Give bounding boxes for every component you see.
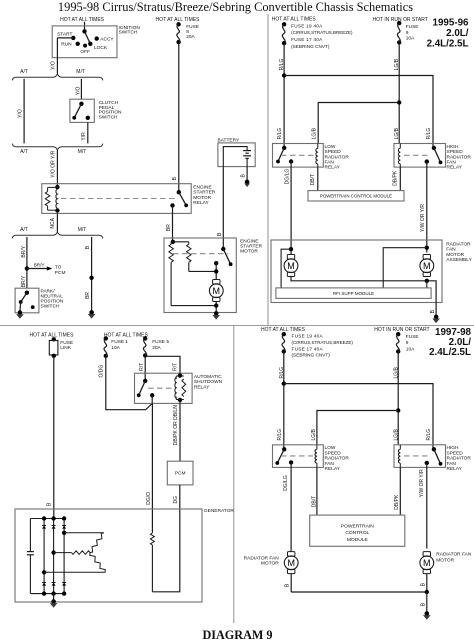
svg-text:FAN: FAN — [447, 160, 457, 166]
generator stator windings — [42, 531, 105, 575]
svg-text:GENERATOR: GENERATOR — [204, 508, 234, 514]
high speed relay dashed link (97-98) — [404, 455, 431, 457]
label RADIATOR FAN MOTOR ASSEMBLY — [446, 242, 472, 264]
svg-text:R/T: R/T — [139, 363, 145, 371]
wire B fuse link to generator — [53, 356, 55, 519]
svg-text:FUSE: FUSE — [406, 334, 419, 340]
node junction M/T ground wire — [89, 276, 93, 280]
divider vertical bottom quadrant — [233, 326, 235, 624]
svg-text:2.0L/: 2.0L/ — [446, 28, 469, 39]
label HIGH SPEED RADIATOR FAN RELAY (97-98) — [447, 445, 472, 472]
svg-text:PCM: PCM — [175, 470, 186, 476]
high speed radiator fan relay box (97-98) — [394, 445, 446, 468]
ground bus (97-98) — [291, 591, 427, 593]
generator diodes bottom row — [42, 583, 46, 586]
arrow TO PCM — [27, 263, 66, 276]
wire DG/LG low speed relay to left fan motor — [290, 162, 292, 255]
svg-text:HOT AT ALL TIMES: HOT AT ALL TIMES — [156, 17, 201, 23]
svg-text:Y/O: Y/O — [75, 86, 81, 95]
svg-text:FUSE 1: FUSE 1 — [111, 339, 128, 345]
svg-text:DG/O: DG/O — [146, 492, 152, 505]
svg-text:R/LG: R/LG — [277, 429, 283, 441]
svg-text:2.4L/2.5L: 2.4L/2.5L — [427, 38, 469, 49]
node junction left motor feed — [289, 247, 293, 251]
svg-text:Y/R: Y/R — [81, 132, 87, 141]
svg-text:DG/LG: DG/LG — [283, 475, 289, 491]
svg-text:RELAY: RELAY — [325, 165, 341, 171]
clutch pedal position switch box — [70, 99, 94, 122]
svg-text:FUSE 19 40A: FUSE 19 40A — [291, 23, 323, 28]
svg-text:DIAGRAM 9: DIAGRAM 9 — [202, 628, 272, 642]
fuse 19 40A (95-96) — [282, 22, 286, 26]
wire DG/LG low speed relay to left fan motor (97-98) — [290, 462, 292, 552]
ignition switch internals — [57, 29, 114, 58]
svg-text:8: 8 — [186, 29, 189, 35]
svg-text:2.4L/2.5L: 2.4L/2.5L — [429, 347, 471, 358]
svg-text:M/T: M/T — [78, 149, 87, 155]
svg-text:LG/B: LG/B — [312, 127, 318, 139]
svg-text:SHUTDOWN: SHUTDOWN — [194, 379, 223, 385]
svg-text:M/T: M/T — [76, 69, 85, 75]
park/neutral position switch internals — [19, 291, 35, 312]
svg-text:R/LG: R/LG — [426, 429, 432, 441]
fuse 19 40A (97-98) — [282, 332, 286, 336]
label ENGINE STARTER MOTOR — [240, 239, 262, 255]
wire B left motor to ground bus — [290, 574, 292, 592]
svg-text:10A: 10A — [406, 35, 415, 41]
low speed relay switch (97-98) — [275, 447, 293, 465]
wire R/T fuse 5 to ASD relay switch — [144, 355, 146, 381]
wire M/T branch Y/O — [80, 79, 82, 99]
fuse link symbol — [49, 337, 73, 358]
wire O/DG fuse 1 to ASD relay output — [106, 356, 152, 410]
svg-text:RFI SUPP MODULE: RFI SUPP MODULE — [333, 291, 374, 296]
svg-text:MOTOR: MOTOR — [240, 248, 258, 254]
svg-text:TO: TO — [55, 265, 62, 271]
svg-text:HOT AT ALL TIMES: HOT AT ALL TIMES — [30, 333, 75, 339]
svg-text:FAN: FAN — [447, 461, 457, 467]
svg-text:R/LG: R/LG — [426, 128, 432, 140]
label 1995-96 2.0L/2.4L/2.5L — [427, 17, 469, 49]
branch brace A/T M/T split 2 — [12, 232, 103, 239]
svg-text:FUSE 17 40A: FUSE 17 40A — [292, 346, 324, 351]
starter solenoid dashed link — [173, 253, 228, 255]
label LOW SPEED RADIATOR FAN RELAY (97-98) — [325, 445, 350, 472]
svg-text:ENGINE: ENGINE — [193, 184, 211, 190]
svg-text:SPEED: SPEED — [325, 149, 342, 155]
svg-text:DG: DG — [173, 496, 179, 504]
generator rectifier bridge frame — [30, 519, 64, 594]
fuse 5 20A — [143, 336, 147, 340]
svg-text:HOT AT ALL TIMES: HOT AT ALL TIMES — [261, 327, 306, 333]
high speed radiator fan relay box (95-96) — [394, 144, 446, 168]
label AUTOMATIC SHUTDOWN RELAY — [194, 374, 223, 390]
wire R/LG crossover to high speed relay switch — [284, 76, 433, 148]
wire DG PCM to generator field — [152, 485, 179, 592]
wire left motor branch to RFI module — [281, 249, 291, 288]
starter solenoid windings — [169, 240, 216, 306]
wire NCA starter relay coil to A/T M/T split — [56, 213, 58, 231]
wire DG/O ASD output to generator field — [151, 403, 153, 532]
low speed relay coil (95-96) — [316, 144, 318, 168]
svg-text:LOCK: LOCK — [94, 45, 108, 51]
high speed relay coil (97-98) — [398, 445, 400, 468]
label CLUTCH PEDAL POSITION SWITCH — [99, 100, 122, 120]
wire Y/W OR Y/R high speed relay to right fan motor — [426, 162, 428, 253]
wire DB/PK high speed relay coil to PCM (97-98) — [399, 467, 401, 515]
svg-text:STARTER: STARTER — [193, 190, 215, 196]
ground radiator fan motors (97-98) — [425, 611, 430, 616]
svg-text:RADIATOR: RADIATOR — [447, 154, 472, 160]
svg-text:DB/T: DB/T — [311, 496, 317, 507]
automatic shutdown relay box — [135, 373, 193, 403]
svg-text:Y/O: Y/O — [18, 109, 24, 118]
svg-text:ACCY: ACCY — [100, 36, 114, 42]
wire B fuse 8 to starter relay switch — [178, 42, 180, 192]
divider horizontal mid — [0, 325, 474, 327]
svg-text:RADIATOR FAN: RADIATOR FAN — [244, 556, 280, 562]
svg-text:BR/Y: BR/Y — [21, 245, 27, 257]
high speed relay dashed link (95-96) — [404, 154, 431, 156]
svg-text:BR: BR — [166, 224, 172, 231]
svg-text:NCA: NCA — [50, 217, 56, 228]
wire B battery positive to starter — [222, 167, 224, 249]
right radiator fan motor M (95-96) — [423, 255, 430, 260]
generator box — [15, 509, 202, 602]
clutch pedal position switch internals — [72, 102, 90, 120]
node junction right motor feed — [425, 246, 429, 250]
battery box — [218, 143, 255, 167]
fuse 8 20A — [176, 22, 180, 26]
fuse 9 10A (97-98) — [396, 332, 400, 336]
node junction BR/Y to PCM — [25, 266, 29, 270]
wire DB/T low speed relay coil to PCM — [317, 167, 319, 191]
starter relay dashed link — [61, 198, 175, 200]
left radiator fan motor M (95-96) — [287, 255, 294, 260]
svg-text:MOTOR: MOTOR — [261, 561, 279, 567]
ground radiator fan assembly (95-96) — [434, 315, 439, 320]
starter relay switch — [170, 190, 188, 208]
svg-text:SPEED: SPEED — [447, 149, 464, 155]
engine starter motor relay box — [42, 184, 191, 214]
svg-text:R/T: R/T — [173, 363, 179, 371]
svg-text:FUSE: FUSE — [406, 24, 419, 30]
svg-text:RELAY: RELAY — [447, 466, 463, 472]
svg-text:FAN: FAN — [446, 247, 456, 253]
node junction LG/B crossover — [397, 100, 401, 104]
low speed radiator fan relay box (97-98) — [273, 445, 324, 468]
svg-text:A/T: A/T — [20, 149, 28, 155]
svg-text:10A: 10A — [111, 345, 120, 351]
wire right motor stub to RFI module — [426, 281, 428, 288]
wire LG/B fuse 9 to high speed relay coil — [398, 42, 400, 143]
battery internals — [223, 147, 251, 167]
svg-text:9: 9 — [406, 340, 409, 346]
ground M/T clutch circuit — [89, 310, 94, 315]
generator diodes top row — [42, 526, 46, 529]
wire B ground bus to ground — [426, 592, 428, 613]
svg-text:1995-98 Cirrus/Stratus/Breeze/: 1995-98 Cirrus/Stratus/Breeze/Sebring Co… — [58, 0, 413, 14]
svg-text:AUTOMATIC: AUTOMATIC — [194, 374, 222, 380]
svg-text:Y/O OR Y/R: Y/O OR Y/R — [50, 150, 56, 178]
generator field coil — [150, 532, 154, 592]
svg-text:BR/Y: BR/Y — [21, 275, 27, 287]
low speed relay switch (95-96) — [276, 146, 293, 164]
wire Y/O OR Y/R to starter relay coil — [56, 150, 58, 187]
svg-text:Y/W OR Y/R: Y/W OR Y/R — [420, 204, 426, 232]
wire right motor branch to RFI module — [383, 248, 427, 288]
fuse 1 10A — [104, 336, 108, 340]
generator diode rails — [42, 516, 66, 596]
label 1997-98 2.0L/2.4L/2.5L — [429, 327, 471, 358]
svg-text:DB/T: DB/T — [310, 174, 316, 185]
svg-text:POWERTRAIN CONTROL MODULE: POWERTRAIN CONTROL MODULE — [320, 194, 392, 199]
svg-text:LOW: LOW — [325, 144, 336, 150]
svg-text:HOT AT ALL TIMES: HOT AT ALL TIMES — [60, 17, 105, 23]
svg-text:START: START — [57, 32, 72, 38]
svg-text:FUSE 19 40A: FUSE 19 40A — [292, 334, 324, 339]
engine starter motor box — [164, 238, 236, 313]
wire Y/R from clutch switch — [87, 122, 89, 143]
label PARK/NEUTRAL POSITION SWITCH — [41, 288, 64, 309]
wire B M/T branch to ground — [91, 237, 93, 312]
wire starter motor feed — [215, 263, 217, 279]
svg-text:M: M — [213, 286, 221, 296]
svg-text:LG/B: LG/B — [311, 428, 317, 440]
wire R/LG crossover to high speed relay switch (97-98) — [284, 384, 433, 450]
svg-text:BR/Y: BR/Y — [34, 263, 45, 268]
svg-text:(SEBRING CNVT): (SEBRING CNVT) — [292, 353, 331, 358]
wire R/T branch to ASD relay coil — [145, 356, 180, 375]
wire LG/B crossover to low speed relay coil (97-98) — [317, 411, 398, 445]
node junction R/LG crossover — [282, 73, 286, 77]
high speed relay switch (95-96) — [425, 146, 443, 165]
fuse 9 10A (95-96) — [397, 21, 401, 25]
svg-text:FUSE 5: FUSE 5 — [152, 339, 169, 345]
PCM box — [167, 461, 193, 485]
ASD relay coil — [175, 373, 186, 402]
svg-text:HIGH: HIGH — [447, 445, 460, 451]
svg-text:SWITCH: SWITCH — [41, 303, 60, 309]
starter relay coil — [45, 185, 59, 213]
svg-text:SPEED: SPEED — [447, 450, 464, 456]
svg-text:M: M — [423, 558, 431, 568]
low speed relay coil (97-98) — [315, 445, 317, 468]
wire DB/PK OR DB/LN ASD coil to PCM — [179, 400, 181, 461]
svg-text:MOTOR: MOTOR — [446, 252, 464, 258]
wire LG/B crossover to low speed relay coil — [318, 103, 399, 144]
svg-text:M: M — [287, 558, 295, 568]
svg-text:DB/PK OR DB/LN: DB/PK OR DB/LN — [173, 405, 179, 445]
svg-text:M: M — [423, 261, 431, 271]
svg-text:RELAY: RELAY — [447, 165, 463, 171]
node junction right motor ground — [425, 279, 429, 283]
svg-text:RADIATOR: RADIATOR — [447, 456, 472, 462]
svg-text:HOT IN RUN OR START: HOT IN RUN OR START — [374, 327, 429, 333]
svg-text:POWERTRAIN: POWERTRAIN — [341, 524, 375, 530]
svg-text:LG/B: LG/B — [394, 58, 400, 70]
ASD relay switch — [137, 379, 155, 404]
low speed radiator fan relay box (95-96) — [273, 144, 324, 168]
svg-text:LG/B: LG/B — [393, 428, 399, 440]
wire BR starter relay to starter motor — [172, 205, 174, 241]
left radiator fan motor M (97-98) — [288, 552, 295, 557]
svg-text:ASSEMBLY: ASSEMBLY — [446, 257, 472, 263]
wire R/LG fuse 19 to low speed relay — [283, 43, 285, 148]
ground battery — [245, 180, 250, 185]
svg-text:9: 9 — [406, 30, 409, 36]
svg-text:A/T: A/T — [20, 227, 28, 233]
svg-text:M: M — [287, 261, 295, 271]
powertrain control module box (95-96) — [308, 191, 404, 201]
svg-text:LG/B: LG/B — [393, 366, 399, 378]
svg-text:O/DG: O/DG — [99, 365, 105, 378]
ignition switch box — [52, 26, 117, 58]
svg-text:BR: BR — [85, 292, 91, 299]
starter solenoid switch — [214, 247, 233, 266]
svg-text:DG/LG: DG/LG — [285, 169, 291, 185]
label RADIATOR FAN MOTOR right (97-98) — [436, 552, 472, 564]
label RADIATOR FAN MOTOR left (97-98) — [244, 556, 280, 567]
svg-text:MOTOR: MOTOR — [193, 195, 211, 201]
branch brace A/T M/T join — [12, 144, 103, 151]
svg-text:SWITCH: SWITCH — [119, 29, 138, 35]
wire DB/T low speed relay coil to PCM (97-98) — [316, 467, 318, 515]
svg-text:Y/W OR Y/R: Y/W OR Y/R — [419, 469, 425, 497]
wire Y/O ignition to A/T M/T split — [56, 58, 58, 74]
wire R/LG fuse 19 to low speed relay (97-98) — [283, 352, 285, 450]
branch brace A/T M/T split 1 — [12, 74, 103, 81]
svg-text:FAN: FAN — [325, 160, 335, 166]
powertrain control module box (97-98) — [310, 515, 405, 546]
ground starter motor — [214, 311, 219, 316]
svg-text:FUSE 17 40A: FUSE 17 40A — [291, 37, 323, 42]
svg-text:RELAY: RELAY — [193, 200, 209, 206]
svg-text:20A: 20A — [186, 34, 195, 40]
svg-text:HOT AT ALL TIMES: HOT AT ALL TIMES — [272, 17, 317, 23]
svg-text:R/LG: R/LG — [279, 367, 285, 379]
svg-text:(CIRRUS,STRATUS,BREEZE): (CIRRUS,STRATUS,BREEZE) — [291, 30, 353, 35]
ASD relay dashed link — [148, 387, 175, 389]
svg-text:RUN: RUN — [61, 41, 72, 47]
node junction R/LG crossover (97-98) — [282, 381, 286, 385]
radiator fan motor assembly box (95-96) — [271, 240, 442, 303]
svg-text:LG/B: LG/B — [394, 127, 400, 139]
svg-text:A/T: A/T — [20, 69, 28, 75]
svg-text:RELAY: RELAY — [194, 384, 210, 390]
svg-text:HIGH: HIGH — [447, 144, 460, 150]
low speed relay dashed link (95-96) — [281, 154, 314, 156]
svg-text:SWITCH: SWITCH — [99, 114, 118, 120]
wire B right motor to ground bus — [426, 574, 428, 592]
wire starter motor to ground — [215, 302, 217, 313]
svg-text:HOT AT ALL TIMES: HOT AT ALL TIMES — [104, 333, 149, 339]
svg-text:MODULE: MODULE — [347, 537, 369, 543]
wire stub into ignition switch — [84, 22, 86, 32]
svg-text:LINK: LINK — [60, 345, 71, 351]
wire motor grounds bus — [291, 276, 436, 316]
svg-text:(CIRRUS,STRATUS,BREEZE): (CIRRUS,STRATUS,BREEZE) — [292, 340, 354, 345]
svg-text:RADIATOR: RADIATOR — [325, 456, 350, 462]
wire BR/Y to park/neutral switch — [26, 237, 28, 288]
svg-text:R/LG: R/LG — [277, 128, 283, 140]
right radiator fan motor M (97-98) — [423, 552, 430, 557]
svg-text:SPEED: SPEED — [325, 450, 342, 456]
svg-text:DB/PK: DB/PK — [394, 494, 400, 510]
svg-text:Y/O: Y/O — [51, 61, 57, 70]
svg-text:CONTROL: CONTROL — [345, 530, 369, 536]
capacitor generator suppressor — [27, 552, 34, 555]
svg-text:20A: 20A — [152, 345, 161, 351]
low speed relay dashed link (97-98) — [281, 455, 313, 457]
svg-text:RADIATOR: RADIATOR — [325, 154, 350, 160]
svg-text:RADIATOR: RADIATOR — [446, 242, 471, 248]
svg-text:RELAY: RELAY — [325, 466, 341, 472]
node junction ground bus — [425, 590, 429, 594]
ground generator — [51, 599, 56, 604]
svg-text:R/LG: R/LG — [279, 59, 285, 71]
wire LG/B fuse 9 to high speed relay coil (97-98) — [397, 352, 399, 445]
svg-text:DB/PK: DB/PK — [393, 170, 399, 186]
wire DB/PK high speed relay coil to PCM — [399, 167, 401, 191]
park/neutral position switch box — [15, 288, 39, 313]
label ENGINE STARTER MOTOR RELAY — [193, 184, 215, 206]
high speed relay switch (97-98) — [425, 447, 443, 466]
wire generator to ground — [53, 594, 55, 601]
svg-text:(SEBRING CNVT): (SEBRING CNVT) — [291, 44, 330, 49]
svg-text:M/T: M/T — [78, 227, 87, 233]
wire battery negative to ground — [246, 167, 248, 181]
svg-text:FUSE: FUSE — [186, 24, 199, 30]
high speed relay coil (95-96) — [398, 144, 400, 168]
svg-text:RADIATOR FAN: RADIATOR FAN — [436, 552, 472, 558]
node junction LG/B crossover (97-98) — [396, 408, 400, 412]
label LOW SPEED RADIATOR FAN RELAY (95-96) — [325, 144, 350, 171]
ground park/neutral switch — [18, 310, 23, 315]
svg-text:LOW: LOW — [325, 445, 336, 451]
svg-text:PCM: PCM — [55, 270, 66, 276]
label HIGH SPEED RADIATOR FAN RELAY (95-96) — [447, 144, 472, 171]
svg-text:MOTOR: MOTOR — [436, 558, 454, 564]
starter motor M — [213, 280, 220, 285]
wire A/T branch Y/O — [23, 79, 25, 144]
RFI SUPP MODULE box — [276, 288, 431, 299]
divider vertical top-right quadrant — [267, 14, 269, 326]
svg-text:10A: 10A — [406, 346, 415, 352]
wire Y/W OR Y/R high speed relay to right fan motor (97-98) — [426, 463, 428, 549]
svg-text:FAN: FAN — [325, 461, 335, 467]
svg-text:1995-96: 1995-96 — [433, 17, 470, 28]
svg-text:OFF: OFF — [80, 49, 90, 55]
